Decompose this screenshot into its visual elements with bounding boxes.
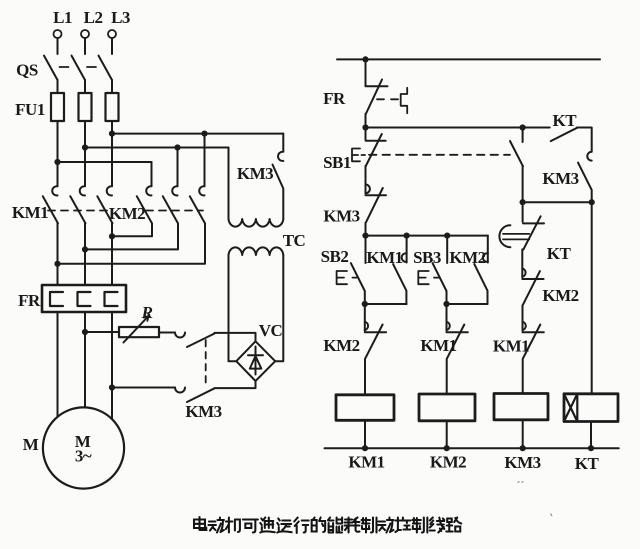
svg-text:KM2: KM2 bbox=[542, 286, 578, 305]
svg-text:FU1: FU1 bbox=[15, 100, 45, 119]
svg-text:FR: FR bbox=[18, 291, 41, 310]
svg-text:TC: TC bbox=[283, 231, 306, 250]
svg-text:VC: VC bbox=[259, 321, 283, 340]
svg-text:KM1: KM1 bbox=[12, 203, 48, 222]
svg-text:KM3: KM3 bbox=[542, 169, 578, 188]
svg-text:L3: L3 bbox=[111, 8, 130, 27]
svg-text:KM3: KM3 bbox=[185, 402, 221, 421]
svg-text:KT: KT bbox=[553, 111, 578, 130]
svg-text:KM3: KM3 bbox=[323, 207, 359, 226]
svg-text:KM1: KM1 bbox=[366, 248, 402, 267]
svg-text:FR: FR bbox=[323, 89, 346, 108]
svg-text:KM2: KM2 bbox=[449, 248, 485, 267]
svg-text:KM3: KM3 bbox=[504, 453, 540, 472]
svg-text:KM1: KM1 bbox=[493, 337, 529, 356]
svg-text:KM1: KM1 bbox=[420, 336, 456, 355]
svg-text:L1: L1 bbox=[53, 8, 72, 27]
svg-text:KM2: KM2 bbox=[323, 336, 359, 355]
svg-text:QS: QS bbox=[16, 61, 38, 80]
svg-text:R: R bbox=[141, 303, 153, 322]
svg-text:L2: L2 bbox=[84, 8, 103, 27]
svg-text:KM3: KM3 bbox=[237, 164, 273, 183]
svg-text:M: M bbox=[23, 435, 39, 454]
svg-text:3~: 3~ bbox=[75, 447, 92, 466]
svg-text:KM2: KM2 bbox=[430, 453, 466, 472]
svg-text:KM2: KM2 bbox=[109, 204, 145, 223]
svg-text:SB1: SB1 bbox=[323, 153, 351, 172]
svg-text:KT: KT bbox=[575, 454, 600, 473]
svg-text:SB3: SB3 bbox=[413, 248, 441, 267]
svg-text:KT: KT bbox=[547, 244, 572, 263]
svg-text:SB2: SB2 bbox=[321, 247, 349, 266]
svg-text:KM1: KM1 bbox=[348, 453, 384, 472]
